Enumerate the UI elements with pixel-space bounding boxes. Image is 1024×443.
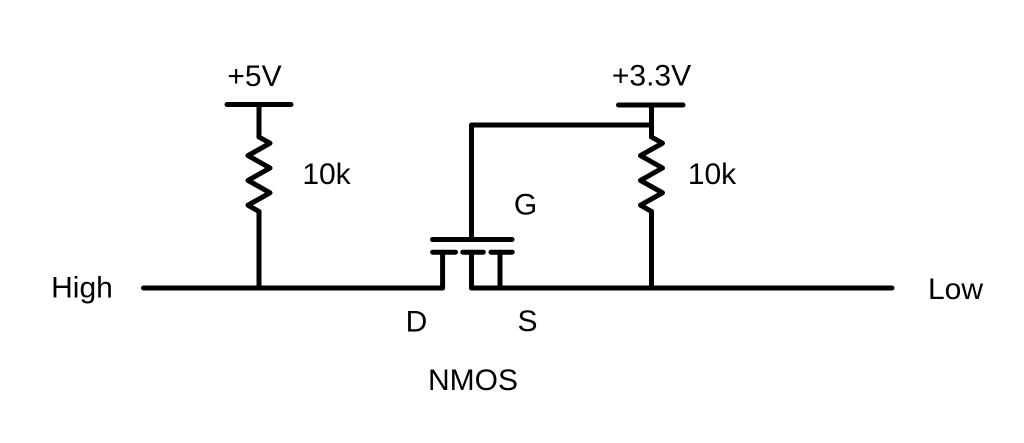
svg-text:S: S <box>517 305 537 338</box>
wire: +5V bar to R1 top <box>257 105 262 138</box>
power +3.3V supply bar <box>619 103 684 108</box>
svg-text:10k: 10k <box>302 158 351 191</box>
svg-text:+5V: +5V <box>227 60 281 93</box>
power +5V supply bar <box>227 102 291 107</box>
svg-text:10k: 10k <box>688 158 737 191</box>
wire: main rail left (High to NMOS drain) <box>144 286 443 291</box>
resistor R1 10k <box>248 137 270 212</box>
wire: main rail right (NMOS source to Low) <box>472 286 893 291</box>
wire: R2 bottom to Low rail <box>649 212 654 289</box>
svg-text:Low: Low <box>928 273 983 306</box>
svg-text:+3.3V: +3.3V <box>612 60 691 93</box>
svg-text:NMOS: NMOS <box>428 364 518 397</box>
svg-text:D: D <box>406 306 428 339</box>
transistor Q1 channel segment (drain) <box>433 250 456 255</box>
wire: +3.3V bar to R2 top <box>649 105 654 137</box>
wire: gate to +3.3V net <box>472 125 652 240</box>
transistor Q1 gate bar <box>433 237 513 242</box>
svg-text:High: High <box>51 272 113 305</box>
transistor Q1 source stub <box>498 252 503 288</box>
svg-text:G: G <box>514 189 537 222</box>
transistor Q1 drain stub <box>440 252 445 288</box>
resistor R2 10k <box>641 137 663 212</box>
transistor Q1 channel segment (source) <box>491 250 512 255</box>
transistor Q1 body stub <box>469 252 474 288</box>
wire: R1 bottom to High rail <box>257 212 262 289</box>
transistor Q1 channel segment (body) <box>463 250 484 255</box>
